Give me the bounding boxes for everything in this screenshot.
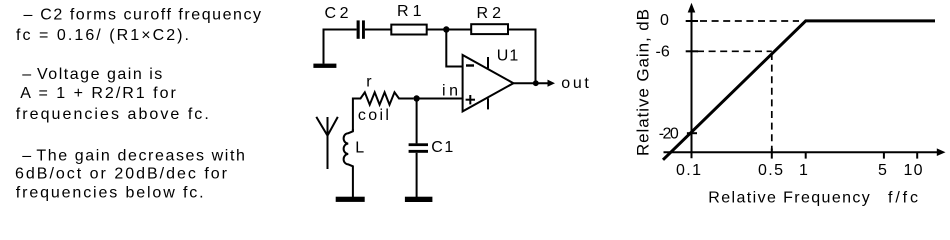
inductor L [344,129,353,197]
svg-text:fc = 0.16/ (R1×C2).: fc = 0.16/ (R1×C2). [16,27,189,44]
node output junction [533,80,539,86]
wire R2 to output rail [508,30,536,84]
wire junction to inverting input [446,32,462,67]
svg-text:6dB/oct or 20dB/dec for: 6dB/oct or 20dB/dec for [15,165,228,182]
svg-text:0: 0 [660,12,669,29]
note paragraph 3 line 1 [22,148,245,165]
capacitor C2 [357,20,365,38]
svg-text:out: out [561,75,589,92]
graph x-axis arrow [937,148,946,156]
svg-text:Relative Gain, dB: Relative Gain, dB [634,9,653,156]
dashed 0.5 vertical [771,53,773,150]
tick -20 dB [687,132,697,134]
svg-text:U1: U1 [497,48,519,65]
svg-text:-20: -20 [659,125,679,142]
node in junction [413,95,419,101]
wire op-amp output [513,82,547,84]
wire R1 to R2 [427,29,472,31]
svg-text:in: in [442,83,458,100]
op-amp U1 [463,55,514,111]
svg-text:Relative Frequency: Relative Frequency [708,189,870,206]
svg-text:–: – [22,148,31,165]
tick 0 dB [686,20,698,22]
tick 5 [883,152,885,158]
svg-text:L: L [355,139,364,156]
wire node in to C1 [416,99,418,144]
svg-text:1: 1 [799,162,808,179]
graph y-axis arrow [688,3,696,13]
resistor r zigzag [353,92,414,131]
svg-text:r: r [366,74,372,91]
svg-text:-6: -6 [656,43,670,60]
node junction R1/R2 [443,26,449,32]
plus sign non-inverting input [466,95,475,104]
svg-text:0.1: 0.1 [676,162,701,179]
resistor R1 [391,25,426,35]
wire C1 to ground [416,153,418,197]
minus sign inverting input [466,64,474,66]
svg-text:C1: C1 [431,139,453,156]
graph x-axis [664,151,938,153]
capacitor C1 [409,143,428,152]
svg-text:5: 5 [878,162,887,179]
antenna [316,117,338,169]
ground under C2 left wire [313,64,336,68]
svg-text:10: 10 [904,162,923,179]
wire node in to op-amp plus input [420,98,463,100]
graph y-axis [691,11,693,158]
tick 1 [805,152,807,158]
note paragraph 1 line 1 [24,7,262,24]
svg-text:A = 1 + R2/R1 for: A = 1 + R2/R1 for [20,85,176,102]
positive supply pin tick [487,57,489,68]
resistor R2 [471,24,508,34]
wire C2 to R1 [365,29,391,31]
gain response curve [663,21,935,160]
note paragraph 2 line 1 [22,66,162,83]
dashed 0 dB level [700,20,799,22]
svg-text:0.5: 0.5 [758,162,783,179]
svg-text:C2 forms curoff frequency: C2 forms curoff frequency [40,7,261,24]
tick 0.5 [771,149,773,159]
tick -6 dB [686,50,698,52]
wire top-left corner to C2 [324,30,357,64]
svg-text:–: – [24,7,33,24]
negative supply pin tick [487,98,489,109]
svg-text:–: – [22,66,31,83]
tick 10 [916,152,918,158]
dashed -6 dB level [697,50,772,52]
ground under L [336,197,365,202]
arrow out [548,80,556,87]
ground under C1 [405,197,433,202]
